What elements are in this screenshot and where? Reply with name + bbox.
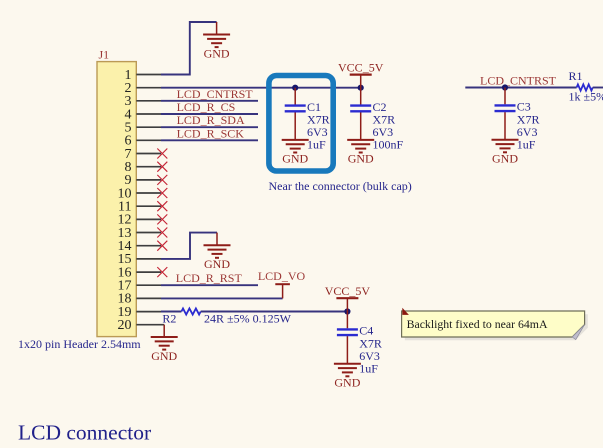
pin 9 stub: [136, 179, 161, 181]
no-connect X pin 13: [157, 228, 167, 238]
pin 6 stub: [136, 139, 161, 141]
pin 8 stub: [136, 166, 161, 168]
pin 7 stub: [136, 153, 161, 155]
no-connect X pin 9: [157, 175, 167, 185]
pin 5 stub: [136, 126, 161, 128]
wire pin 6 (LCD_R_SCK): [161, 139, 258, 141]
pin 4 stub: [136, 113, 161, 115]
no-connect X pin 11: [157, 201, 167, 211]
svg-text:1x20 pin Header 2.54mm: 1x20 pin Header 2.54mm: [18, 337, 141, 351]
no-connect X pin 16: [157, 267, 167, 277]
svg-text:1uF: 1uF: [307, 138, 326, 152]
ground below C3: [492, 140, 519, 166]
pin 13 stub: [136, 232, 161, 234]
svg-text:Near the connector (bulk cap): Near the connector (bulk cap): [269, 179, 412, 193]
svg-text:1k ±5%: 1k ±5%: [569, 90, 603, 104]
svg-text:LCD_R_SCK: LCD_R_SCK: [177, 126, 245, 140]
svg-text:1uF: 1uF: [517, 137, 536, 151]
capacitor C1: [285, 88, 330, 152]
svg-text:24R ±5% 0.125W: 24R ±5% 0.125W: [204, 311, 292, 325]
pin numbers 1-20: [118, 68, 132, 333]
wire pin1 to GND: [161, 22, 217, 75]
pin 2 stub: [136, 87, 161, 89]
highlight box around C1: [269, 76, 333, 172]
ground (pin 15): [204, 245, 231, 271]
svg-text:VCC_5V: VCC_5V: [325, 284, 371, 298]
svg-text:GND: GND: [334, 376, 360, 390]
svg-text:LCD_R_SDA: LCD_R_SDA: [177, 113, 245, 127]
ground below C1: [282, 140, 309, 166]
svg-text:GND: GND: [204, 46, 230, 60]
GND stem (pin 15): [216, 233, 218, 246]
svg-text:LCD_R_RST: LCD_R_RST: [176, 271, 243, 285]
svg-text:GND: GND: [282, 152, 308, 166]
wire LCD_CNTRST (right): [465, 87, 576, 89]
svg-text:R2: R2: [162, 311, 176, 325]
pin 14 stub: [136, 245, 161, 247]
VCC stem (C4): [346, 298, 348, 311]
wire pin2 (bulk cap net): [161, 87, 361, 89]
pin 17 stub: [136, 284, 161, 286]
no-connect X pin 12: [157, 214, 167, 224]
ground stem pin20: [163, 325, 165, 337]
svg-text:R1: R1: [569, 69, 583, 83]
svg-text:GND: GND: [492, 152, 518, 166]
ground (pin 20): [151, 337, 178, 363]
svg-text:LCD_R_CS: LCD_R_CS: [177, 100, 236, 114]
pin 11 stub: [136, 205, 161, 207]
capacitor C3: [495, 88, 540, 152]
svg-text:GND: GND: [151, 349, 177, 363]
pin 20 stub: [136, 324, 164, 326]
note box: Backlight fixed to near 64mA: [402, 308, 588, 341]
wire pin 3 (LCD_CNTRST): [161, 100, 258, 102]
ground below C2: [347, 140, 374, 166]
pin 1 stub: [136, 74, 161, 76]
svg-text:LCD connector: LCD connector: [18, 421, 151, 445]
wire pin 5 (LCD_R_SDA): [161, 126, 258, 128]
svg-text:GND: GND: [348, 152, 374, 166]
svg-text:VCC_5V: VCC_5V: [338, 60, 384, 74]
power VCC_5V at C2: [338, 60, 384, 74]
wire pin 4 (LCD_R_CS): [161, 113, 258, 115]
no-connect X pin 8: [157, 162, 167, 172]
power port LCD_VO: [258, 269, 306, 298]
svg-text:LCD_CNTRST: LCD_CNTRST: [177, 87, 254, 101]
svg-text:LCD_VO: LCD_VO: [258, 269, 306, 283]
ground below C4: [334, 364, 361, 390]
wire pin19 to R2: [161, 311, 181, 313]
pin 18 stub: [136, 297, 161, 299]
wire pin17 (LCD_R_RST): [161, 284, 258, 286]
pin 19 stub: [136, 311, 161, 313]
pin 15 stub: [136, 258, 161, 260]
svg-text:1uF: 1uF: [359, 361, 378, 375]
power VCC_5V at C4: [325, 284, 371, 298]
note collapse triangle: [402, 308, 409, 315]
junction at C3: [502, 84, 508, 90]
junction at C2: [358, 85, 364, 91]
GND stem (top): [216, 22, 218, 35]
connector J1 (1x20 header): [97, 62, 136, 337]
wire pin15 to GND: [161, 233, 217, 259]
no-connect X pin 14: [157, 241, 167, 251]
capacitor C4: [337, 312, 382, 376]
svg-text:20: 20: [118, 318, 132, 333]
wire pin18 to LCD_VO: [161, 297, 283, 299]
capacitor C2: [350, 88, 403, 152]
wire R1 to edge: [593, 87, 603, 89]
svg-text:GND: GND: [204, 257, 230, 271]
junction at C1: [292, 85, 298, 91]
pin 12 stub: [136, 218, 161, 220]
VCC stem: [360, 75, 362, 88]
pin 3 stub: [136, 100, 161, 102]
no-connect X pin 7: [157, 149, 167, 159]
resistor R1: [569, 69, 593, 91]
pin 16 stub: [136, 271, 161, 273]
svg-text:J1: J1: [99, 48, 110, 62]
ground (pin 1): [203, 35, 230, 61]
junction at C4: [344, 308, 350, 314]
resistor R2: [162, 308, 200, 325]
svg-text:LCD_CNTRST: LCD_CNTRST: [480, 74, 557, 88]
svg-text:100nF: 100nF: [373, 138, 404, 152]
pin 10 stub: [136, 192, 161, 194]
svg-text:Backlight fixed to near 64mA: Backlight fixed to near 64mA: [407, 317, 548, 331]
wire R2 to C4 junction: [201, 311, 348, 313]
no-connect X pin 10: [157, 188, 167, 198]
